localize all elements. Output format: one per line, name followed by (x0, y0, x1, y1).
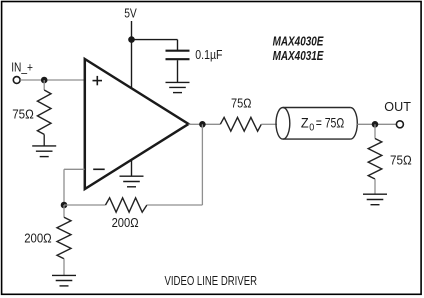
wire feedback from output node down (201, 124, 203, 205)
ground below gain resistor (52, 275, 76, 286)
junction OUT node (372, 121, 379, 128)
capacitor C 0.1uF bypass (166, 40, 190, 82)
svg-text:200Ω: 200Ω (24, 230, 52, 245)
wire op-amp output (189, 123, 221, 125)
svg-text:IN_+: IN_+ (11, 61, 33, 75)
svg-text:= 75Ω: = 75Ω (316, 115, 345, 131)
resistor 75 ohm input termination (37, 90, 51, 134)
svg-text:200Ω: 200Ω (112, 215, 139, 230)
junction feedback node (61, 202, 68, 209)
op-amp U1 triangle (85, 59, 189, 189)
resistor 200 ohm feedback (106, 198, 147, 212)
svg-text:0.1µF: 0.1µF (195, 47, 222, 62)
wire gain resistor to ground (63, 259, 65, 276)
wire resistor to ground (43, 134, 45, 145)
wire feedback resistor to output node (147, 204, 203, 206)
wire input node to 75 ohm termination resistor (43, 80, 45, 90)
ground below op-amp (120, 160, 144, 187)
terminal IN_+ open circle (13, 77, 20, 84)
pin - inverting input mark (93, 168, 105, 170)
wire inverting input to feedback node (64, 168, 85, 170)
resistor 75 ohm load termination (368, 139, 382, 180)
wire feedback node to 200 ohm gain resistor (63, 205, 65, 217)
svg-text:5V: 5V (124, 7, 137, 21)
ground below capacitor (166, 82, 190, 92)
ground below input resistor (32, 146, 56, 157)
junction input node (41, 77, 48, 84)
resistor 75 ohm series back-termination (220, 117, 261, 131)
wire load resistor to ground (374, 179, 376, 194)
svg-text:75Ω: 75Ω (12, 107, 34, 122)
ground below load resistor (363, 194, 387, 205)
wire 5V node to bypass capacitor (132, 39, 178, 41)
svg-text:OUT: OUT (384, 100, 411, 114)
svg-text:MAX4031E: MAX4031E (273, 49, 324, 63)
pin + noninverting input mark (93, 76, 103, 85)
svg-text:MAX4030E: MAX4030E (273, 35, 324, 49)
resistor 200 ohm gain-set (57, 217, 71, 258)
coax cable Z0 = 75 ohm (276, 108, 357, 140)
svg-text:75Ω: 75Ω (390, 153, 412, 168)
wire coax to OUT terminal (357, 123, 396, 125)
wire feedback left vertical (63, 169, 65, 205)
svg-text:VIDEO LINE DRIVER: VIDEO LINE DRIVER (165, 273, 258, 288)
svg-text:75Ω: 75Ω (231, 96, 252, 111)
wire IN_+ to op-amp noninverting input (20, 79, 84, 81)
svg-text:Z: Z (301, 115, 309, 131)
wire OUT node to 75 ohm load (374, 124, 376, 138)
wire feedback node to 200 ohm feedback resistor (64, 204, 106, 206)
junction 5V node (128, 36, 135, 43)
junction output node (199, 121, 206, 128)
terminal OUT open circle (396, 121, 403, 128)
wire 5V vertical to op-amp supply pin (131, 21, 133, 88)
svg-text:0: 0 (309, 122, 314, 133)
wire resistor to coax (261, 123, 277, 125)
